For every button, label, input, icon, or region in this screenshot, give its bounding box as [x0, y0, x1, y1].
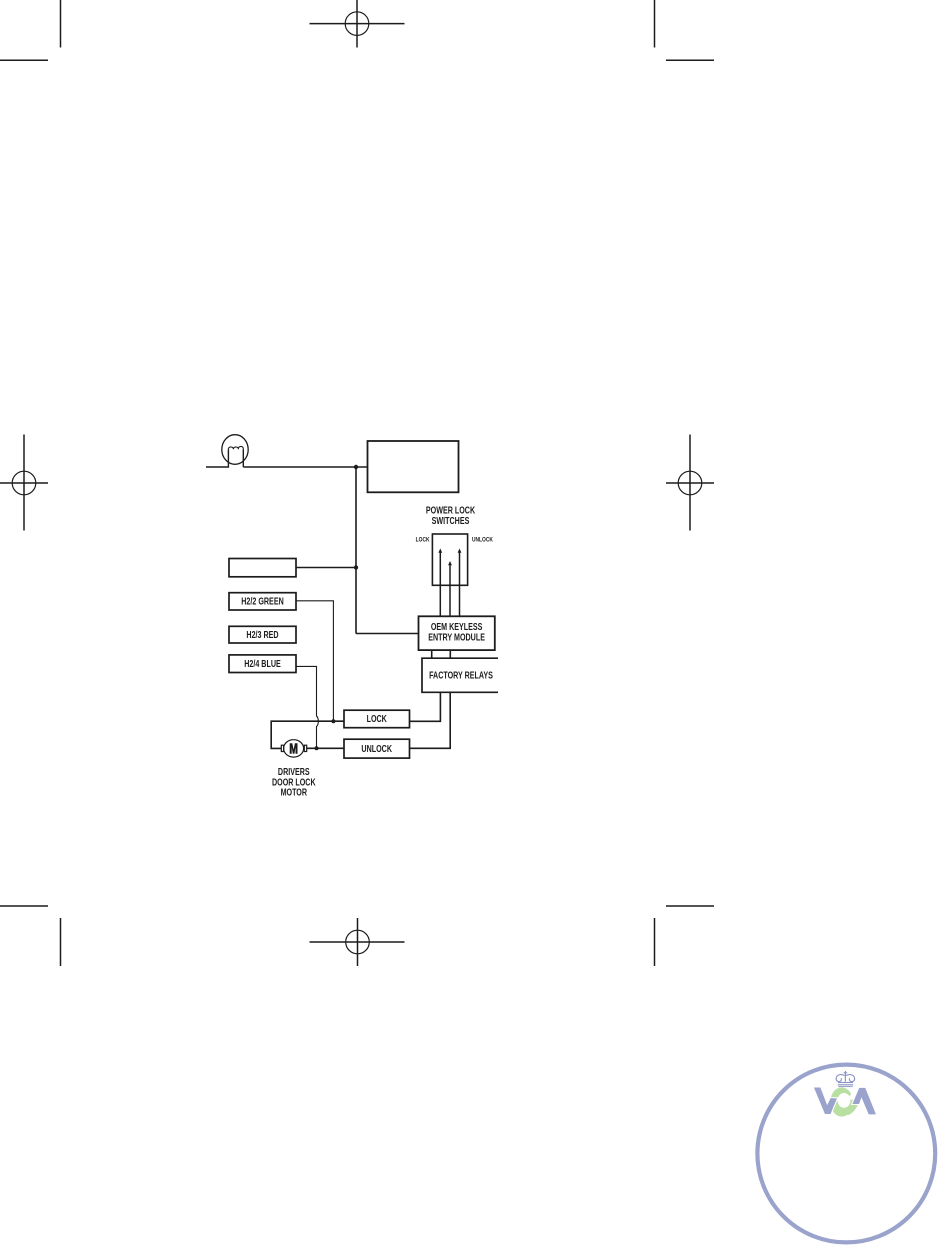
label LOCK box text — [367, 713, 388, 724]
wire motor left loop — [271, 721, 344, 748]
svg-text:ENTRY MODULE: ENTRY MODULE — [428, 631, 485, 642]
wire switch lock line — [439, 553, 441, 617]
wire left box to bus — [296, 567, 356, 569]
crop mark bottom-left — [0, 906, 61, 966]
VCA letter A — [852, 1087, 877, 1115]
label UNLOCK (switch) — [472, 537, 493, 544]
registration mark left-middle — [0, 435, 48, 531]
fuse F1 (circled coil) — [206, 435, 248, 467]
VCA letter C — [830, 1087, 860, 1116]
node junction at main vertical — [354, 465, 358, 469]
svg-text:H2/2 GREEN: H2/2 GREEN — [241, 595, 283, 606]
label H2/2 GREEN — [241, 595, 283, 606]
OEM keyless entry module box — [419, 616, 495, 650]
wire factory relays to UNLOCK box — [410, 692, 451, 748]
H2/3 RED connector box — [229, 626, 296, 643]
top unlabeled box — [368, 441, 459, 492]
label M in motor — [290, 743, 298, 754]
VCA letter V — [813, 1087, 838, 1115]
left unlabeled box — [229, 559, 296, 577]
wire main vertical bus — [355, 467, 357, 634]
label POWER LOCK SWITCHES — [426, 504, 476, 515]
label DRIVERS DOOR LOCK MOTOR — [278, 766, 310, 777]
factory relays box (open right) — [422, 658, 498, 692]
UNLOCK box — [344, 739, 410, 758]
node junction H2/4 on motor wire — [315, 746, 319, 750]
wire H2/2 to lock wire — [296, 601, 333, 721]
LOCK box — [344, 710, 410, 728]
wire switch unlock line — [459, 553, 461, 617]
motor M drivers door lock — [281, 740, 306, 757]
label LOCK (switch) — [416, 537, 430, 544]
svg-text:UNLOCK: UNLOCK — [361, 743, 392, 754]
H2/4 BLUE connector box — [229, 655, 296, 673]
svg-text:MOTOR: MOTOR — [281, 787, 308, 798]
VCA crown — [836, 1071, 854, 1087]
registration mark bottom-center — [310, 918, 405, 966]
node junction H2/2 on lock wire — [331, 719, 335, 723]
wire motor right to UNLOCK — [307, 747, 344, 749]
wire H2/4 down with hop over lock wire — [296, 666, 318, 748]
wire OEM to factory relays left — [431, 650, 433, 658]
node junction with left box wire — [354, 565, 358, 569]
svg-text:H2/3 RED: H2/3 RED — [246, 629, 278, 640]
wire switch middle line — [449, 565, 451, 616]
crop mark top-right — [655, 0, 715, 60]
label OEM KEYLESS ENTRY MODULE — [431, 621, 483, 632]
label H2/3 RED — [246, 629, 278, 640]
wire bus to OEM module — [356, 633, 419, 635]
wire OEM to factory relays right — [449, 650, 451, 658]
power lock switches box — [432, 534, 467, 585]
wire fuse to top box — [243, 466, 367, 468]
label UNLOCK box text — [361, 743, 392, 754]
svg-text:H2/4 BLUE: H2/4 BLUE — [244, 658, 281, 669]
crop mark bottom-right — [655, 906, 715, 966]
VCA outer ring — [757, 1065, 935, 1243]
H2/2 GREEN connector box — [229, 593, 296, 610]
wire factory relays to LOCK box — [410, 692, 441, 721]
svg-text:LOCK: LOCK — [367, 713, 388, 724]
label FACTORY RELAYS — [429, 669, 493, 680]
svg-text:SWITCHES: SWITCHES — [432, 515, 470, 526]
svg-text:UNLOCK: UNLOCK — [472, 537, 493, 544]
svg-text:FACTORY RELAYS: FACTORY RELAYS — [429, 669, 493, 680]
crop mark top-left — [0, 0, 61, 60]
svg-text:LOCK: LOCK — [416, 537, 430, 544]
registration mark top-center — [310, 0, 405, 48]
label H2/4 BLUE — [244, 658, 281, 669]
registration mark right-middle — [666, 435, 714, 531]
